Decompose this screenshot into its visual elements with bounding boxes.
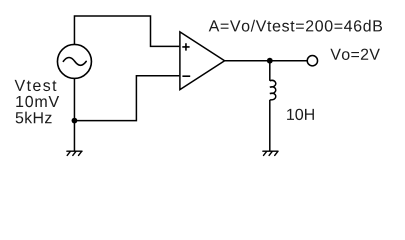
op-amp <box>180 32 225 90</box>
wire from output junction to inductor <box>269 61 271 81</box>
wire from inductor to ground <box>269 100 271 151</box>
ground under inductor <box>263 151 278 155</box>
wire from op-amp output to terminal <box>225 60 308 62</box>
node label Vo=2V <box>330 49 380 60</box>
junction dot at Vtest bottom node <box>72 118 78 124</box>
terminal Vo <box>307 56 317 66</box>
wire from junction to op-amp - input <box>74 76 179 121</box>
voltage source Vtest <box>57 44 91 78</box>
inductor 10H <box>270 80 276 100</box>
wire from Vtest top to op-amp + input <box>74 16 179 46</box>
value label Vtest 10mV 5kHz <box>15 80 60 124</box>
value label 10H <box>287 109 314 120</box>
wire from Vtest bottom to ground <box>73 78 75 151</box>
ground under Vtest <box>67 151 82 155</box>
gain label <box>209 20 382 32</box>
junction dot at output node <box>267 58 273 64</box>
